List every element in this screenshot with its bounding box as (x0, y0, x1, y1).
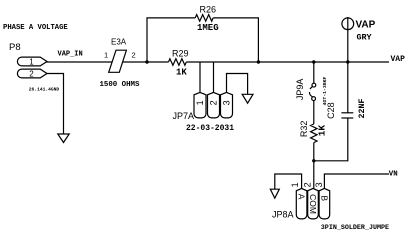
wire JP7A pin3 jog to arrow (227, 74, 248, 95)
ground arrow below P8 (58, 134, 69, 143)
capacitor C28 (341, 113, 353, 118)
wire JP8A pin3 to VN (324, 174, 389, 188)
wire C28 bottom to junction (314, 118, 348, 161)
wire R26 branch left riser (147, 18, 195, 62)
resistor R29 (169, 59, 187, 66)
svg-text:P8: P8 (9, 42, 21, 53)
power symbol VAP (342, 18, 354, 30)
junction dot VAP drop (346, 60, 349, 63)
wire JP8A pin1 to ground arrow (275, 174, 302, 189)
svg-text:1K: 1K (176, 67, 187, 77)
resistive element E3A body (109, 50, 127, 72)
junction dot R32/C28 (312, 159, 315, 162)
svg-text:R32: R32 (299, 121, 309, 138)
resistor R32 (311, 124, 317, 143)
wire R29 to VAP net (186, 61, 389, 63)
node B junction dot at R26 right (257, 60, 260, 63)
svg-text:GRY: GRY (357, 33, 373, 43)
svg-text:VAP: VAP (356, 20, 376, 31)
wire main to JP9A (313, 62, 315, 83)
svg-text:PHASE A VOLTAGE: PHASE A VOLTAGE (3, 24, 68, 32)
svg-text:JP8A: JP8A (272, 210, 294, 220)
wire R32 to junction (313, 143, 315, 189)
svg-text:E3A: E3A (111, 38, 127, 47)
connector P8 (17, 57, 47, 78)
svg-text:3: 3 (314, 182, 324, 187)
ground arrow near JP7A pin3 (242, 94, 253, 103)
wire P8 pin2 to ground arrow (47, 74, 64, 135)
svg-text:26.141.4GND: 26.141.4GND (29, 87, 60, 93)
connector JP8A pins (296, 188, 329, 219)
junction dot JP9A branch (312, 60, 315, 63)
svg-text:1500 OHMS: 1500 OHMS (100, 81, 140, 89)
svg-text:2: 2 (209, 100, 219, 105)
svg-text:A: A (297, 194, 307, 200)
svg-text:JP9A: JP9A (295, 79, 305, 101)
svg-text:C28: C28 (326, 102, 336, 119)
svg-text:2: 2 (302, 182, 312, 187)
svg-text:2: 2 (132, 51, 136, 60)
svg-text:VAP: VAP (391, 55, 406, 64)
ground arrow near JP8A (270, 189, 279, 198)
svg-text:1K: 1K (317, 125, 328, 137)
svg-text:1: 1 (290, 182, 300, 187)
svg-text:VAP_IN: VAP_IN (58, 50, 83, 58)
svg-text:22-03-2031: 22-03-2031 (186, 124, 234, 133)
svg-text:3PIN_SOLDER_JUMPE: 3PIN_SOLDER_JUMPE (321, 224, 389, 232)
svg-text:22NF: 22NF (358, 99, 367, 119)
svg-text:1: 1 (104, 51, 108, 60)
svg-text:2: 2 (29, 70, 34, 79)
node A junction dot (145, 60, 148, 63)
svg-text:COM: COM (308, 194, 318, 214)
svg-text:1: 1 (195, 100, 205, 105)
svg-text:B: B (319, 195, 329, 201)
svg-text:4GT-1-3BKF: 4GT-1-3BKF (322, 76, 328, 105)
wire JP9A to R32 (313, 101, 315, 125)
resistor R26 (195, 15, 213, 22)
wire JP7A pin1 drop (199, 62, 201, 92)
connector JP7A pins (194, 92, 233, 118)
svg-text:R29: R29 (172, 48, 189, 58)
wire VAP symbol drop through main wire to C28 (347, 17, 349, 113)
svg-text:R26: R26 (200, 4, 217, 14)
wire P8 pin1 to E3A (47, 61, 113, 63)
svg-text:JP7A: JP7A (173, 111, 195, 121)
svg-text:1MEG: 1MEG (197, 23, 219, 33)
wire JP7A pin2 drop (213, 62, 215, 92)
wire R26 branch right riser (213, 18, 258, 62)
svg-text:3: 3 (222, 100, 232, 105)
jumper JP9A (309, 83, 315, 100)
svg-text:VN: VN (389, 170, 398, 178)
svg-text:1: 1 (29, 58, 34, 67)
wire E3A to node A (123, 61, 169, 63)
